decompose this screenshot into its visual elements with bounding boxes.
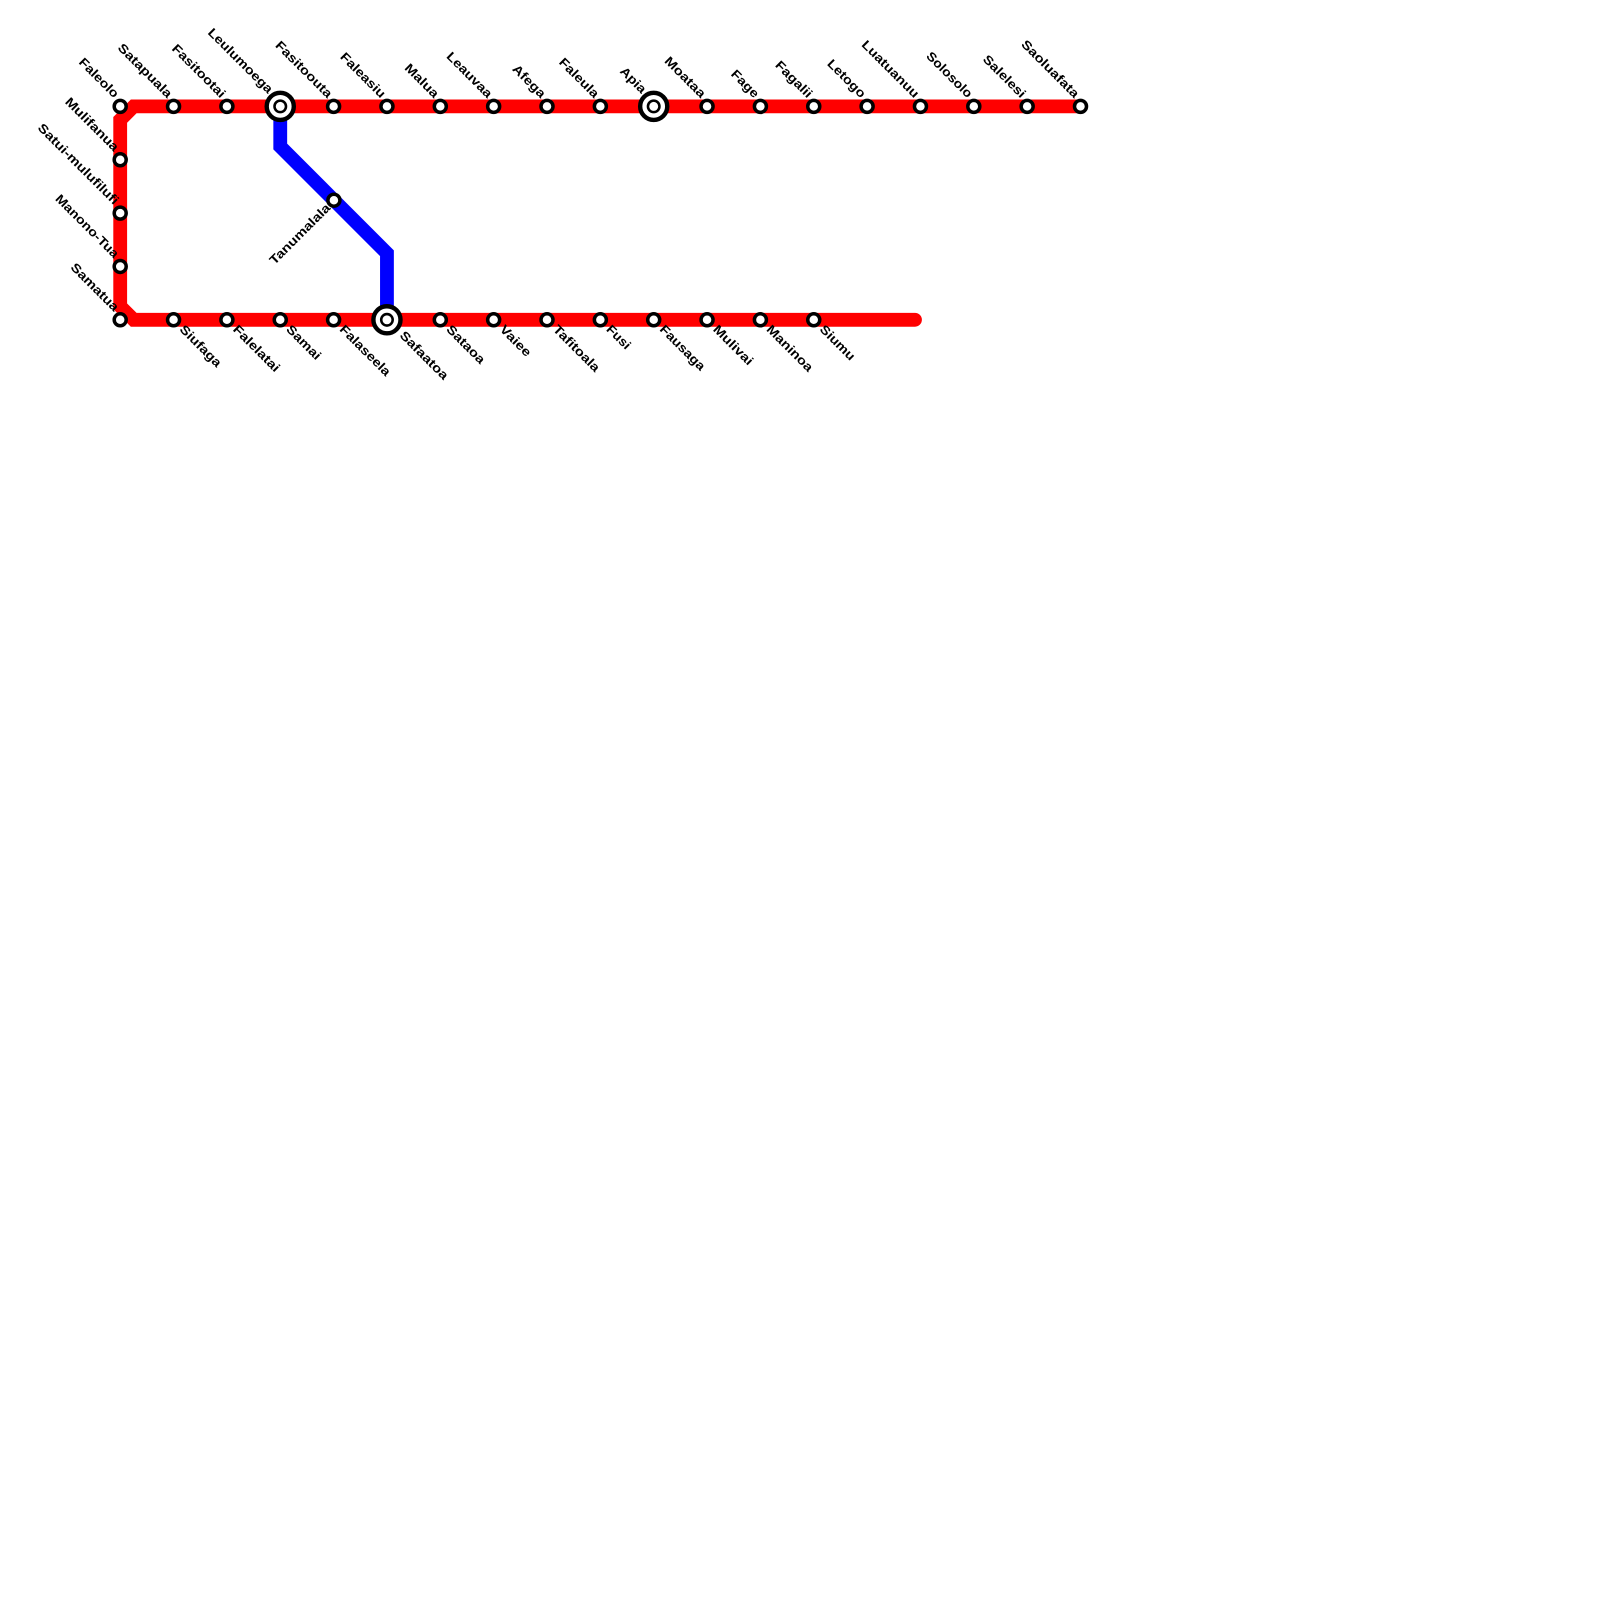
station Manono-Tua bbox=[114, 260, 126, 272]
station Fasitootai bbox=[221, 100, 233, 112]
station Saoluafata bbox=[1075, 100, 1087, 112]
svg-text:Faleasiu: Faleasiu bbox=[337, 50, 388, 101]
station Siumu bbox=[808, 314, 820, 326]
svg-text:Safaatoa: Safaatoa bbox=[397, 328, 452, 383]
svg-text:Afega: Afega bbox=[510, 62, 550, 102]
svg-text:Solosolo: Solosolo bbox=[923, 49, 975, 101]
svg-text:Vaiee: Vaiee bbox=[497, 322, 534, 359]
svg-text:Apia: Apia bbox=[617, 64, 650, 97]
station Salelesi bbox=[1021, 100, 1033, 112]
interchange station Safaatoa bbox=[373, 306, 400, 333]
station Fage bbox=[754, 100, 766, 112]
svg-text:Falelatai: Falelatai bbox=[230, 322, 283, 375]
station Samai bbox=[274, 314, 286, 326]
svg-text:Tanumalala: Tanumalala bbox=[267, 200, 334, 267]
svg-text:Moataa: Moataa bbox=[662, 54, 710, 102]
interchange station Leulumoega bbox=[267, 93, 294, 120]
station Faleasiu bbox=[381, 100, 393, 112]
station Mulifanua bbox=[114, 154, 126, 166]
station Fagalii bbox=[808, 100, 820, 112]
svg-text:Sataoa: Sataoa bbox=[443, 322, 488, 367]
svg-text:Satapuala: Satapuala bbox=[115, 41, 176, 102]
station Vaiee bbox=[488, 314, 500, 326]
svg-text:Siumu: Siumu bbox=[817, 322, 858, 363]
svg-text:Saoluafata: Saoluafata bbox=[1018, 37, 1082, 101]
station Falaseela bbox=[328, 314, 340, 326]
station Satapuala bbox=[168, 100, 180, 112]
station Fusi bbox=[594, 314, 606, 326]
station Tafitoala bbox=[541, 314, 553, 326]
station Moataa bbox=[701, 100, 713, 112]
svg-text:Siufaga: Siufaga bbox=[177, 322, 226, 371]
station Maninoa bbox=[754, 314, 766, 326]
svg-text:Fausaga: Fausaga bbox=[657, 322, 709, 374]
svg-text:Salelesi: Salelesi bbox=[980, 52, 1029, 101]
station Letogo bbox=[861, 100, 873, 112]
station Sataoa bbox=[434, 314, 446, 326]
station Leauvaa bbox=[488, 100, 500, 112]
station Afega bbox=[541, 100, 553, 112]
station Faleolo bbox=[114, 100, 126, 112]
station Fasitoouta bbox=[328, 100, 340, 112]
svg-text:Faleula: Faleula bbox=[556, 55, 603, 102]
svg-text:Fage: Fage bbox=[728, 67, 762, 101]
interchange station Apia bbox=[640, 93, 667, 120]
svg-text:Luatuanuu: Luatuanuu bbox=[859, 38, 922, 101]
station Fausaga bbox=[648, 314, 660, 326]
station Satui-mulufilufi bbox=[114, 207, 126, 219]
station Mulivai bbox=[701, 314, 713, 326]
station Luatuanuu bbox=[914, 100, 926, 112]
svg-text:Maninoa: Maninoa bbox=[764, 322, 817, 375]
station Samatua bbox=[114, 314, 126, 326]
station Faleula bbox=[594, 100, 606, 112]
svg-text:Fasitootai: Fasitootai bbox=[169, 41, 228, 100]
svg-text:Fagalii: Fagalii bbox=[772, 58, 815, 101]
station Malua bbox=[434, 100, 446, 112]
svg-text:Letogo: Letogo bbox=[824, 57, 868, 101]
svg-text:Samai: Samai bbox=[283, 322, 323, 362]
svg-text:Mulivai: Mulivai bbox=[710, 322, 756, 368]
svg-text:Leauvaa: Leauvaa bbox=[444, 49, 496, 101]
station Solosolo bbox=[968, 100, 980, 112]
station Siufaga bbox=[168, 314, 180, 326]
station Falelatai bbox=[221, 314, 233, 326]
blue line bbox=[280, 106, 387, 319]
svg-text:Tafitoala: Tafitoala bbox=[550, 322, 603, 375]
red line bbox=[120, 106, 1080, 319]
svg-text:Fusi: Fusi bbox=[604, 322, 634, 352]
svg-text:Faleolo: Faleolo bbox=[76, 55, 122, 101]
station Tanumalala bbox=[328, 194, 340, 206]
svg-text:Malua: Malua bbox=[402, 61, 443, 102]
